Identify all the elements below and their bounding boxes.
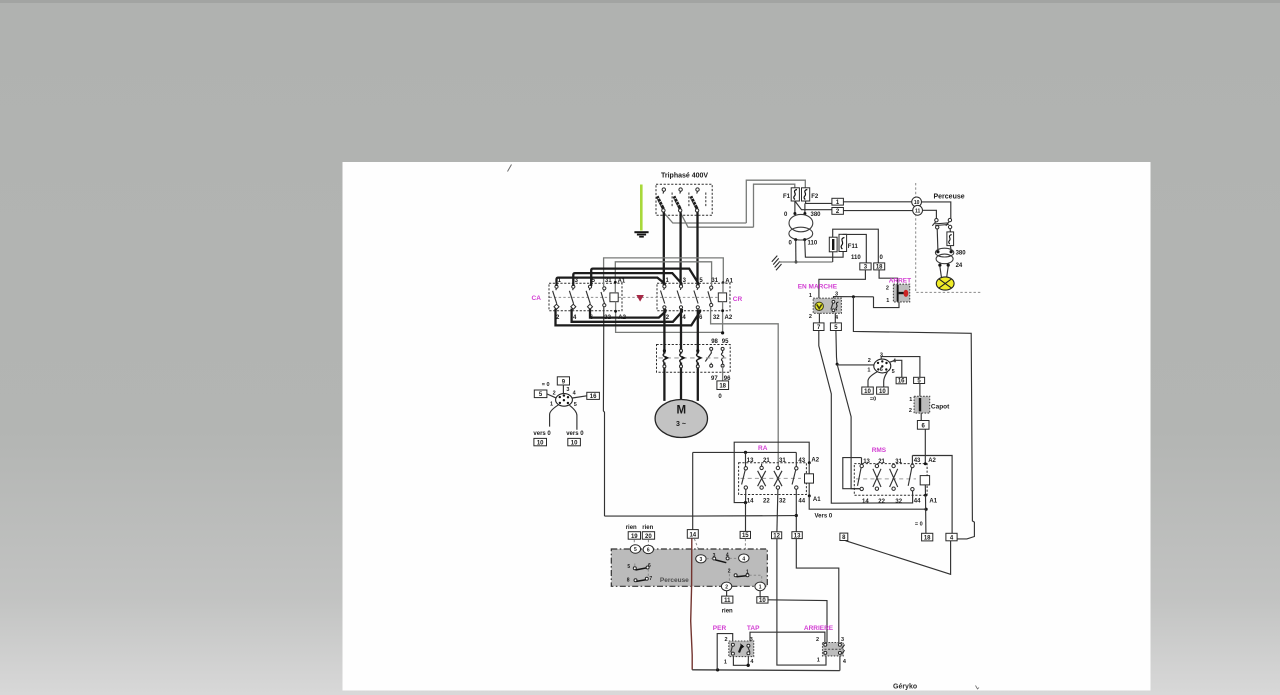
terminal box 10 (right) <box>568 438 581 446</box>
EN MARCHE pin labels <box>809 292 839 321</box>
svg-text:380: 380 <box>956 250 967 256</box>
terminal box 5r <box>914 377 925 384</box>
svg-text:20: 20 <box>645 534 652 540</box>
svg-text:16: 16 <box>590 394 597 400</box>
wire: socket 1 to box 10b <box>759 591 761 597</box>
wire: box 5r to Capot <box>919 384 921 397</box>
wire: junction diagonal to RMS 13 <box>837 364 860 489</box>
terminal box 18b <box>922 533 933 541</box>
Q1 pole 3 <box>691 188 706 212</box>
svg-text:10: 10 <box>537 441 544 447</box>
wire: RA A1 to RMS A1 (vers 0 rail) <box>809 496 926 509</box>
svg-text:31: 31 <box>605 278 612 284</box>
RMS pin labels top <box>863 458 936 465</box>
svg-text:A1: A1 <box>618 279 626 285</box>
ground (under green feeder) <box>634 231 648 237</box>
Perceuse dashed boundary <box>916 183 981 292</box>
svg-text:3: 3 <box>566 387 569 393</box>
lower feed rail from CA 32 <box>605 515 797 518</box>
svg-text:TAP: TAP <box>747 625 760 632</box>
svg-text:EN MARCHE: EN MARCHE <box>798 284 838 291</box>
svg-text:1: 1 <box>550 402 553 408</box>
svg-text:A2: A2 <box>618 315 626 321</box>
svg-text:18: 18 <box>719 384 726 390</box>
svg-text:5: 5 <box>574 402 577 408</box>
fuse F11 (striped cartridge) <box>829 237 837 252</box>
wire: pin1 tail to vers 0 <box>550 405 559 427</box>
CR pin labels bottom <box>666 315 733 321</box>
svg-text:Géryko: Géryko <box>893 683 917 690</box>
CA pole 1-2 <box>553 285 559 309</box>
fuse F2 <box>802 188 819 201</box>
Perceuse switch block (gray) <box>611 549 767 586</box>
lamp switch S2 <box>932 218 952 229</box>
svg-text:1: 1 <box>867 368 870 374</box>
svg-text:44: 44 <box>798 498 805 504</box>
CA pin labels bottom <box>556 315 627 321</box>
green supply feeder line <box>640 185 643 231</box>
svg-text:24: 24 <box>956 263 963 269</box>
svg-text:13: 13 <box>863 459 870 465</box>
svg-text:RMS: RMS <box>872 447 887 454</box>
terminal box 7 <box>813 323 824 331</box>
CR aux contact 31-32 <box>708 286 713 307</box>
svg-text:F11: F11 <box>848 244 859 250</box>
svg-text:= 0: = 0 <box>915 521 923 527</box>
maroon wire from box 14 to bottom rail <box>691 538 693 670</box>
wire: Capot to box 6 <box>920 413 922 420</box>
svg-text:A1: A1 <box>813 497 821 503</box>
wire: F11 bottom to ground rail <box>832 252 834 262</box>
top bus bar phase B <box>573 273 681 286</box>
terminal box 2 <box>832 208 844 216</box>
svg-text:4: 4 <box>742 556 745 562</box>
svg-text:43: 43 <box>914 458 921 464</box>
dashed stubs under boxes 19 20 <box>634 540 648 545</box>
connector pin labels <box>550 387 577 408</box>
terminal box 20 <box>642 532 654 540</box>
PER/TAP pin labels <box>724 637 755 666</box>
svg-text:14: 14 <box>862 499 869 505</box>
wire: F11 loop to box 18 (0 side) <box>833 229 879 263</box>
terminal box 4 <box>946 533 957 541</box>
transformer T2 (24V) <box>935 248 966 269</box>
terminal box 5 <box>534 390 547 398</box>
svg-text:21: 21 <box>763 458 770 464</box>
PER/TAP selector switch <box>729 641 754 657</box>
wire: pin4 to box 16r <box>890 360 902 377</box>
wire: box 3 to EN MARCHE button <box>819 270 866 298</box>
wire: circle 11 to switch <box>923 210 937 218</box>
disconnect switch Q1 dashed box <box>656 184 712 215</box>
svg-text:31: 31 <box>895 459 902 465</box>
bottom bus bar phase C <box>556 309 701 326</box>
terminal box 10 (din right) <box>877 387 889 395</box>
svg-text:3 ~: 3 ~ <box>676 421 686 428</box>
wire: rail T down to box 14 <box>692 452 694 529</box>
RMS coil <box>920 476 929 485</box>
wire: box 18 to ARRET button <box>879 270 898 284</box>
wire: PER 1 and 4 joined <box>733 657 748 666</box>
terminal box 5 (marche) <box>830 323 841 331</box>
wire: socket 2 to box 11 <box>726 591 728 596</box>
RA contact 43-44 <box>792 452 798 531</box>
svg-text:5: 5 <box>627 564 630 570</box>
CA pin labels top <box>558 278 626 285</box>
wire: EN MARCHE 3 to ARRET loop <box>834 297 874 299</box>
CR coil <box>718 293 726 302</box>
wire: box9 to pin3 <box>562 385 564 394</box>
RA contact 21-22 (NC crossed) <box>758 464 766 490</box>
wire: pin1 tail to box 10L <box>868 372 877 387</box>
svg-text:1: 1 <box>724 659 727 665</box>
switch 3-4 <box>706 553 738 563</box>
svg-text:2: 2 <box>868 358 871 364</box>
CA pole 3-4 <box>569 285 575 309</box>
wire: switch to T2 left <box>936 229 939 250</box>
ground symbol (0V) <box>772 256 783 271</box>
bottom bus bar phase A <box>590 309 665 318</box>
switch 2-1 <box>728 569 762 582</box>
socket 2 <box>721 582 731 591</box>
terminal box 14 <box>687 530 698 539</box>
terminal box 8 <box>840 533 848 541</box>
svg-text:1: 1 <box>817 657 820 663</box>
wire: box 4 bottom diagonal to box 8 <box>846 541 951 575</box>
terminal box 19 <box>628 532 640 540</box>
socket 3 <box>696 555 706 563</box>
CR pole 1-2 <box>661 285 667 309</box>
wire: CA 32 long drop to lower rail <box>603 307 604 516</box>
RA contact 13-14 <box>742 452 748 504</box>
svg-text:2: 2 <box>553 391 556 397</box>
bottom rail <box>692 669 840 672</box>
wire: junction to DIN connector right <box>837 364 874 366</box>
svg-text:2: 2 <box>728 569 731 575</box>
wire: F1 to terminal box 2 <box>795 201 832 210</box>
svg-text:11: 11 <box>915 209 921 215</box>
wire: ARRIERE 4 down to bottom rail <box>839 656 841 671</box>
RMS 13 bypass loop <box>843 458 862 489</box>
svg-text:21: 21 <box>878 459 885 465</box>
RMS contact 43-44 <box>908 456 914 491</box>
dashed link box15 to socket 4 <box>744 539 746 554</box>
Capot pin labels <box>909 397 912 414</box>
fuse F11 (element) <box>839 234 858 251</box>
svg-text:ARRIERE: ARRIERE <box>804 625 834 632</box>
svg-text:31: 31 <box>711 278 718 284</box>
RA outer wire loop <box>734 442 809 502</box>
terminal box 18 <box>874 263 885 271</box>
wire: box 12 down to ARRIERE 1 <box>777 539 826 665</box>
wire: circle 10 to switch <box>922 202 951 219</box>
RA coil <box>805 474 814 483</box>
contactor CR dashed box <box>657 283 730 311</box>
svg-text:= 0: = 0 <box>542 382 550 388</box>
RMS contact 13-14 <box>858 464 864 490</box>
svg-text:13: 13 <box>747 458 754 464</box>
overload aux contact 97-98 <box>705 347 712 367</box>
bottom bus bar phase B <box>572 309 682 322</box>
wire: F11 element to box 3 (110 side) <box>843 234 866 263</box>
svg-text:M: M <box>677 405 687 417</box>
RA linkage dashes <box>741 477 802 479</box>
thermal overload relay dashed box <box>657 345 731 373</box>
svg-text:A2: A2 <box>725 315 733 321</box>
svg-text:5: 5 <box>892 369 895 375</box>
Q1 pole 2 <box>674 188 689 212</box>
wire: box5 to pin2 <box>547 394 556 398</box>
RMS pin labels bottom <box>862 498 938 505</box>
svg-text:Perceuse: Perceuse <box>934 193 965 200</box>
svg-text:A2: A2 <box>811 458 819 464</box>
svg-text:32: 32 <box>713 315 720 321</box>
svg-text:CR: CR <box>733 296 743 303</box>
terminal box 12 <box>772 532 782 540</box>
svg-text:98: 98 <box>711 339 718 345</box>
wire: box 6 to RMS A2 <box>924 429 926 464</box>
stray slash mark top of page <box>508 165 512 172</box>
svg-text:11: 11 <box>724 598 731 604</box>
svg-text:Perceuse: Perceuse <box>660 577 689 584</box>
svg-text:2: 2 <box>725 637 728 643</box>
svg-text:8: 8 <box>627 578 630 584</box>
wire: CR 32 loop to relay RA 31 <box>711 307 779 467</box>
svg-text:14: 14 <box>689 533 696 539</box>
top bus bar phase A <box>557 278 665 286</box>
wire: CR A2 down to 0V junction <box>722 302 724 333</box>
terminal box 9 <box>557 377 569 386</box>
terminal box 11 <box>722 596 733 604</box>
right DIN pin labels <box>867 352 897 375</box>
wire: box 13 down to ARRIERE 3 <box>796 539 839 643</box>
svg-text:Triphasé 400V: Triphasé 400V <box>661 173 708 180</box>
svg-text:vers 0: vers 0 <box>566 431 584 437</box>
terminal box 1 <box>832 198 844 206</box>
svg-text:2: 2 <box>909 408 912 414</box>
svg-text:rien: rien <box>626 525 637 531</box>
wire: EN MARCHE 2 to box 7 <box>818 313 820 323</box>
svg-text:F2: F2 <box>811 194 819 200</box>
svg-text:3: 3 <box>841 637 844 643</box>
wire: box16 to pin4 <box>572 396 586 398</box>
svg-text:1: 1 <box>809 293 812 299</box>
wire: box 7 down to RMS 44 <box>819 331 913 504</box>
wire: three phase drops to contactor CP <box>663 212 665 285</box>
wire: pin3 up to box 5r <box>881 357 920 378</box>
wire: F2 to transformer 380 <box>804 203 806 213</box>
svg-text:32: 32 <box>604 315 611 321</box>
top bus bar phase C <box>591 269 698 286</box>
terminal box 18 (overload) <box>717 381 729 390</box>
svg-text:12: 12 <box>773 534 780 540</box>
svg-text:6: 6 <box>647 548 650 554</box>
ARRIERE switch <box>823 643 845 656</box>
svg-text:F1: F1 <box>783 194 791 200</box>
socket 4 <box>739 554 749 562</box>
fuse F1 <box>783 188 799 201</box>
svg-text:18: 18 <box>924 536 931 542</box>
svg-text:6: 6 <box>880 367 883 373</box>
linkage line CA-CR with red arrow <box>550 296 730 298</box>
RA contact 31-32 (NC crossed) <box>774 466 782 532</box>
wire: pin5 tail to box 10R <box>884 372 888 387</box>
fuse F12 (lamp) <box>947 229 954 251</box>
svg-text:Capot: Capot <box>931 404 950 411</box>
overload aux contact 95-96 <box>721 347 724 367</box>
white drawing page <box>343 162 1151 691</box>
svg-text:32: 32 <box>779 498 786 504</box>
wire: CA 31 up and over to CR A1 (interlock) <box>604 258 724 287</box>
wire: TAP 3 to ARRIERE 2 <box>750 632 825 642</box>
socket 5 <box>630 545 640 553</box>
wire: CA A1 up and over to CR 31 (interlock) <box>615 262 711 293</box>
svg-text:110: 110 <box>808 240 818 246</box>
CR pole 3-4 <box>677 285 683 309</box>
svg-text:vers 0: vers 0 <box>533 431 551 437</box>
svg-text:Vers 0: Vers 0 <box>815 513 833 519</box>
RA pin labels bottom <box>747 497 821 505</box>
svg-text:PER: PER <box>713 625 727 632</box>
transformer T1 <box>784 212 821 247</box>
svg-text:43: 43 <box>798 458 805 464</box>
wire: F2 to terminal box 1 <box>806 201 832 203</box>
ARRET pin labels <box>886 286 889 304</box>
wire: box 5 down to junction <box>836 331 837 365</box>
CA pole 5-6 <box>586 285 592 309</box>
terminal box 10b <box>757 597 768 604</box>
motor phase line B through overload <box>680 309 683 400</box>
wire: CR A1 junction <box>722 281 725 284</box>
wire: box 10b to ARRIERE 2 <box>768 600 827 643</box>
ground rail with junction <box>795 261 798 264</box>
terminal box 3 <box>860 263 871 271</box>
RA pin labels top <box>747 458 820 464</box>
svg-text:rien: rien <box>722 608 733 614</box>
wire: F1 to transformer 0 <box>794 201 796 213</box>
svg-text:16: 16 <box>898 379 905 385</box>
terminal box 10 (left) <box>534 438 547 446</box>
right DIN connector (commande) <box>874 359 891 373</box>
CR pole 5-6 <box>694 285 700 309</box>
svg-text:A1: A1 <box>725 279 733 285</box>
svg-text:2: 2 <box>816 637 819 643</box>
svg-text:32: 32 <box>895 499 902 505</box>
svg-text:10: 10 <box>864 389 871 395</box>
RMS contact 31-32 (NC crossed) <box>890 464 898 490</box>
svg-text:44: 44 <box>914 498 921 504</box>
wire: RMS 43 loop to box 4 <box>912 456 952 534</box>
wire: CA A2 down to 0V rail <box>616 302 723 333</box>
terminal box 15 <box>740 531 750 539</box>
RMS dashed box <box>854 464 927 496</box>
svg-text:13: 13 <box>794 533 801 539</box>
svg-text:110: 110 <box>851 255 861 261</box>
RMS contact 21-22 (NC crossed) <box>873 464 881 491</box>
svg-text:380: 380 <box>811 212 822 218</box>
svg-text:rien: rien <box>642 525 653 531</box>
RMS linkage dashes <box>856 478 916 480</box>
RA feed rail from CA 32 <box>693 451 797 453</box>
wire: PER 2 loop to bottom rail <box>717 634 733 670</box>
svg-text:10: 10 <box>571 441 578 447</box>
connector plug (left) <box>556 394 573 407</box>
wire: box2 to circle 11 <box>843 210 912 212</box>
svg-text:CA: CA <box>532 295 542 302</box>
svg-text:22: 22 <box>763 498 770 504</box>
svg-text:2: 2 <box>725 585 728 591</box>
svg-text:22: 22 <box>878 499 885 505</box>
wire: T1-110 to fuse F11 <box>805 240 843 258</box>
stray mark bottom right <box>976 686 980 690</box>
wire: T2 to lamp <box>940 267 948 278</box>
pushbutton body <box>813 298 841 313</box>
wire: box1 to circle 10 <box>843 201 911 203</box>
wire: 95-96 to box 18 (0) <box>722 366 724 381</box>
svg-text:=0: =0 <box>870 397 876 403</box>
socket 6 <box>643 545 653 553</box>
overload linkage dashes with arrows <box>659 356 728 360</box>
svg-text:7: 7 <box>649 576 652 582</box>
svg-text:A2: A2 <box>928 458 936 464</box>
wire: RA 14 down to box 15 <box>745 503 747 532</box>
motor M <box>655 400 707 438</box>
svg-text:95: 95 <box>722 339 729 345</box>
wire: RMS A1 down to box 18b <box>925 495 927 533</box>
svg-text:RA: RA <box>758 445 768 452</box>
lamp H1 <box>936 277 954 290</box>
RA dashed box <box>739 463 807 495</box>
switch 8-7 <box>627 569 653 583</box>
terminal circle 10 <box>912 197 922 207</box>
contactor CA dashed box <box>549 283 622 311</box>
terminal box 13 <box>792 532 802 540</box>
svg-text:A1: A1 <box>929 498 937 504</box>
svg-text:2: 2 <box>809 314 812 320</box>
wire: EN MARCHE 4 to box 5 <box>834 313 836 323</box>
svg-text:18: 18 <box>876 265 883 271</box>
svg-text:15: 15 <box>742 533 749 539</box>
svg-text:10: 10 <box>759 598 766 604</box>
svg-text:1: 1 <box>886 298 889 304</box>
svg-text:19: 19 <box>631 534 638 540</box>
motor phase line C through overload <box>696 310 699 401</box>
socket 1 <box>755 582 765 591</box>
terminal box 6 <box>917 421 929 430</box>
wire: T1-0 down to ground rail <box>795 240 797 262</box>
wire: phase A to fuse feeder (gray loop) <box>663 180 805 223</box>
svg-text:1: 1 <box>759 585 762 591</box>
wire: pin5 tail to vers 0 <box>570 405 577 430</box>
terminal box 16 <box>587 392 600 400</box>
Capot switch <box>914 396 930 413</box>
svg-text:3: 3 <box>700 557 703 563</box>
wire: lamp circuit branch (to box 4 right side) <box>853 297 974 539</box>
svg-text:10: 10 <box>879 389 886 395</box>
dashed link box14 to socket 3 <box>694 539 700 554</box>
svg-text:2: 2 <box>886 286 889 292</box>
svg-text:1: 1 <box>909 397 912 403</box>
CA aux contact 31-32 <box>601 287 606 307</box>
terminal box 16r <box>896 377 906 384</box>
terminal circle 11 <box>913 205 923 215</box>
Q1 pole 1 <box>657 188 672 212</box>
wire: phase B to fuse feeder (gray loop) <box>680 184 795 227</box>
svg-text:5: 5 <box>634 547 637 553</box>
terminal box 10 (din left) <box>862 387 874 395</box>
wire: ARRET bottom loop back to rail <box>874 297 900 308</box>
switch 5-6 <box>627 563 651 570</box>
